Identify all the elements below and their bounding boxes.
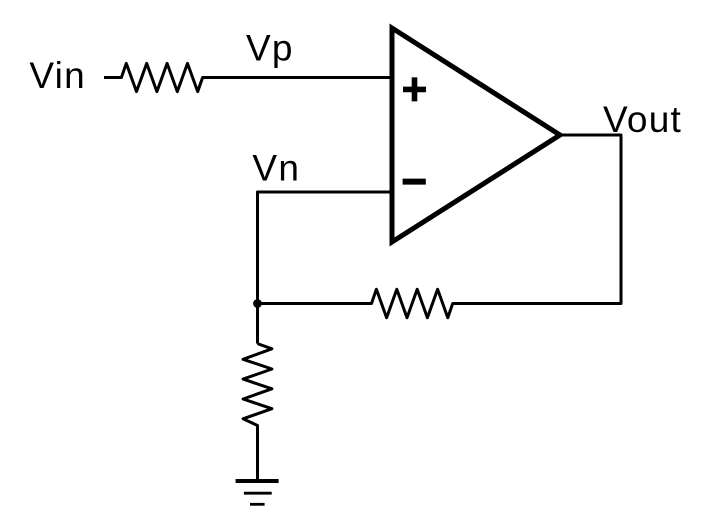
svg-text:Vp: Vp <box>246 28 294 69</box>
svg-text:Vin: Vin <box>29 55 86 96</box>
svg-text:Vn: Vn <box>252 147 300 188</box>
svg-text:Vout: Vout <box>603 99 682 140</box>
